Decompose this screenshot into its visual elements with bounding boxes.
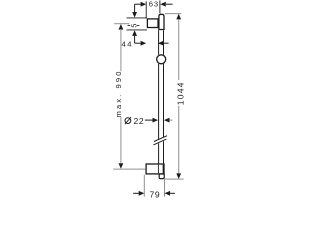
max 990 bottom extension line [113,168,145,170]
bottom wall bracket [146,164,164,174]
dim 44 right arrow at rail [158,41,169,46]
dim 79 text [150,190,161,200]
extension line left of 63 [145,1,147,18]
1044 dimension line upper [178,19,180,80]
max 990 text [114,69,123,117]
max 990 bottom arrow [119,163,124,169]
dim 79 right extension line [164,179,166,196]
dim 5 text [130,24,139,28]
dim 5 top arrow [132,12,137,18]
dim 5 vertical leader from 63 line [134,4,136,15]
dim 22 text [134,116,145,126]
top rail cap [159,14,164,29]
1044 top extension line [165,13,182,15]
dim 63 text [149,0,159,9]
svg-text:79: 79 [150,190,161,200]
dim 22 right arrow [164,118,173,123]
max 990 top arrow [119,24,124,30]
extension line right of 63 [159,0,161,13]
dim 22 left arrow [145,118,158,123]
dim 44 text [121,40,132,49]
svg-text:63: 63 [149,0,159,9]
max 990 top extension line [114,23,129,25]
holder right edge inside bottom bracket [162,165,164,173]
dim 5 line stubs [128,24,140,26]
dim 5 tail down to 44 line [134,36,136,43]
dim 5 top extension line [127,17,148,19]
max 990 dimension line upper [120,29,122,71]
1044 bottom arrow [176,173,181,179]
break symbol diagonal 2 [153,139,166,145]
1044 top arrow [176,14,181,20]
rail tube lower segment [159,141,164,164]
dim diameter symbol [125,117,131,124]
rail tube middle segment [159,64,164,140]
dim 79 right arrow [165,191,175,196]
1044 bottom extension line [164,178,183,180]
svg-text:max. 990: max. 990 [114,69,123,117]
dim 79 left extension line [143,175,145,197]
svg-text:44: 44 [121,40,132,49]
bottom nub [159,174,164,179]
rail left edge through bottom bracket [157,165,159,173]
dim 63 leader line [135,2,173,7]
svg-text:22: 22 [134,116,145,126]
max 990 dimension line lower [120,117,122,163]
1044 text [175,81,185,105]
rail tube upper segment [159,30,164,55]
svg-text:1044: 1044 [175,81,185,105]
dim 5 bottom extension line [127,29,148,31]
1044 dimension line lower [178,106,180,174]
break symbol diagonal 1 [154,136,167,142]
dim 44 leader line [135,41,147,46]
top wall bracket [147,19,158,28]
dim 5 bottom arrow [132,30,137,36]
dim 79 left arrow [133,191,144,196]
slider circle [157,55,166,64]
